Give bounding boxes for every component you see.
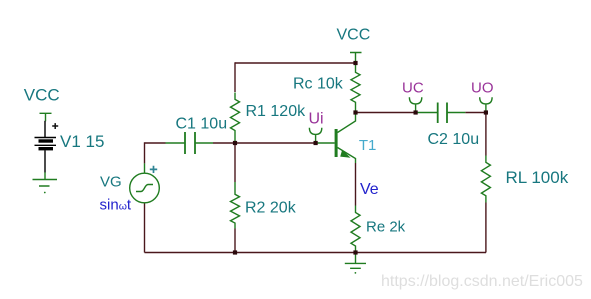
svg-text:R1 120k: R1 120k	[246, 103, 307, 120]
svg-text:T1: T1	[359, 137, 377, 154]
svg-text:Rc 10k: Rc 10k	[293, 76, 344, 93]
svg-text:V1 15: V1 15	[60, 132, 104, 151]
svg-text:UC: UC	[402, 80, 424, 97]
svg-text:RL 100k: RL 100k	[506, 168, 569, 187]
svg-text:Ve: Ve	[360, 181, 379, 198]
svg-text:C2 10u: C2 10u	[428, 131, 480, 148]
svg-text:R2 20k: R2 20k	[245, 200, 297, 217]
svg-text:UO: UO	[471, 80, 494, 97]
svg-text:VCC: VCC	[24, 86, 60, 105]
svg-text:Re 2k: Re 2k	[366, 219, 406, 236]
svg-text:C1 10u: C1 10u	[176, 115, 228, 132]
svg-text:VCC: VCC	[337, 26, 371, 43]
svg-text:VG: VG	[100, 174, 122, 191]
svg-text:sinωt: sinωt	[100, 197, 132, 214]
svg-text:Ui: Ui	[309, 111, 324, 128]
svg-text:https://blog.csdn.net/Eric005: https://blog.csdn.net/Eric005	[381, 273, 583, 290]
